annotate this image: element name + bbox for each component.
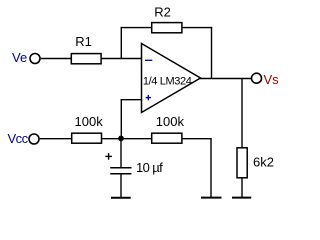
op-amp non-inverting input plus sign: [146, 95, 151, 100]
node B junction dot: [118, 136, 124, 142]
wire second 100k to right corner: [182, 138, 212, 140]
svg-text:Ve: Ve: [12, 50, 27, 65]
wire output down to 6k2: [241, 79, 243, 148]
svg-text:1/4 LM324: 1/4 LM324: [143, 76, 192, 88]
resistor 6k2: [237, 148, 274, 178]
wire 100k to node B and second 100k: [102, 138, 152, 140]
wire R1 to op-amp inverting input: [101, 58, 141, 60]
wire Ve to R1: [41, 58, 71, 60]
svg-text:6k2: 6k2: [253, 155, 274, 170]
wire node A to R2: [121, 27, 152, 29]
op-amp U1 triangle: [142, 44, 201, 113]
resistor R2: [152, 4, 182, 33]
svg-text:100k: 100k: [75, 114, 104, 129]
wire R2 to output corner: [182, 27, 212, 29]
ground middle: [201, 197, 222, 199]
svg-text:10 µf: 10 µf: [136, 160, 163, 175]
wire Vcc to 100k: [40, 138, 72, 140]
resistor R1: [71, 34, 101, 64]
svg-text:Vcc: Vcc: [8, 131, 29, 146]
svg-text:Vs: Vs: [264, 72, 280, 87]
terminal Ve: [12, 50, 40, 65]
wire feedback down to output: [211, 27, 213, 79]
wire op-amp output: [200, 78, 251, 80]
wire node B up to plus input: [120, 99, 122, 139]
capacitor C1 plates: [110, 160, 163, 175]
ground under 6k2: [232, 197, 251, 199]
svg-text:R1: R1: [75, 34, 92, 49]
ground under capacitor: [111, 197, 131, 199]
svg-text:100k: 100k: [156, 114, 185, 129]
wire capacitor to ground: [120, 174, 122, 198]
wire 6k2 to ground: [241, 178, 243, 198]
wire to plus input horizontal: [121, 99, 142, 101]
op-amp inverting input minus sign: [145, 59, 152, 61]
wire feedback vertical to node A: [120, 27, 122, 59]
resistor 100k (Vcc side): [72, 114, 103, 143]
terminal Vcc: [8, 131, 40, 146]
capacitor C1 plus sign: [105, 153, 112, 160]
resistor 100k (to ground branch): [152, 114, 185, 143]
wire down to middle ground: [210, 138, 212, 198]
terminal Vs: [252, 72, 280, 87]
wire node B down to capacitor C1: [120, 139, 122, 168]
svg-text:R2: R2: [154, 4, 171, 19]
